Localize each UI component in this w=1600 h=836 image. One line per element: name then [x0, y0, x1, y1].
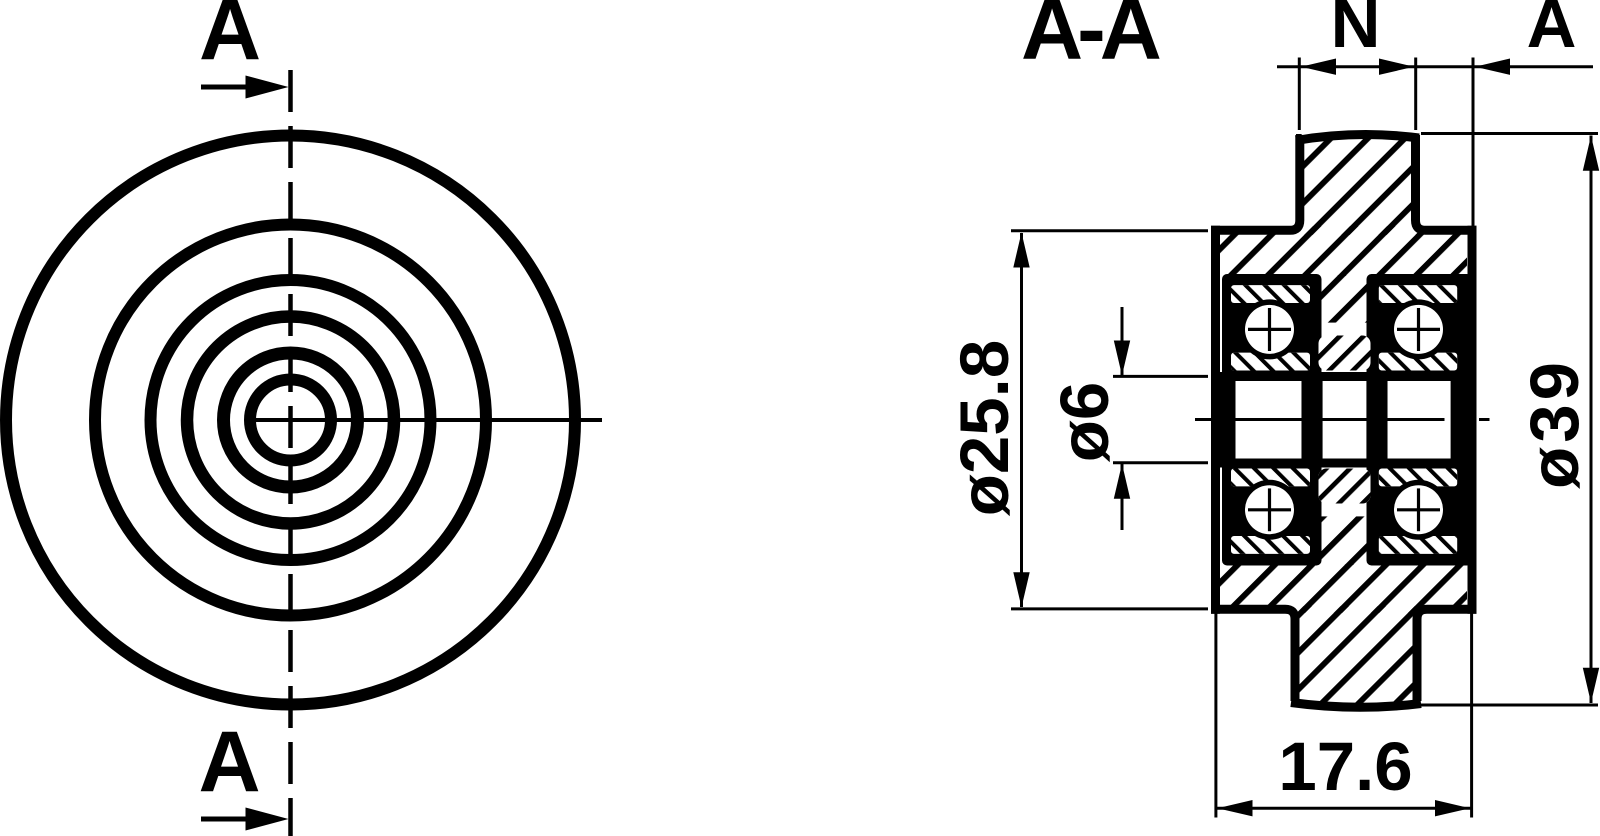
section horizontal centerline — [1195, 418, 1213, 421]
ext line N right — [1414, 58, 1417, 131]
ext line d25.8 top — [1011, 229, 1208, 232]
bore window W2 — [1323, 381, 1367, 459]
arrow d25.8 down — [1013, 572, 1029, 607]
dim line d39 — [1590, 136, 1593, 704]
hub bottom cap — [1291, 703, 1421, 708]
hatched spacer tile (upper) — [1319, 336, 1371, 371]
upper-left bearing block — [1222, 274, 1322, 381]
race hatch bands upper-right bearing — [1379, 285, 1457, 303]
body outline left face — [1211, 226, 1220, 614]
bearing inner race circle — [224, 353, 358, 487]
svg-text:17.6: 17.6 — [1278, 728, 1412, 805]
bore top bar — [1211, 372, 1477, 381]
ext line N left — [1298, 58, 1301, 131]
vertical section centerline (dashed) — [288, 70, 293, 836]
bore bottom bar — [1211, 459, 1477, 468]
horizontal centerline — [250, 418, 602, 422]
upper-right bearing block — [1367, 274, 1473, 381]
arrow d39 down — [1583, 668, 1599, 703]
svg-text:A: A — [199, 0, 261, 78]
bearing shoulder circle — [187, 317, 394, 524]
ext line d6 bottom — [1113, 461, 1208, 464]
arrow d39 up — [1583, 136, 1599, 171]
cutting-plane arrow (bottom) — [201, 817, 252, 822]
body top surface + hub left wall — [1211, 135, 1300, 230]
bore-level bar mid-right — [1366, 372, 1387, 468]
ext line 17.6 right — [1470, 612, 1473, 818]
race hatch bands lower-right bearing — [1379, 469, 1457, 487]
race hatch bands upper-left bearing — [1231, 285, 1310, 303]
arrow N right / A outside-left — [1379, 59, 1414, 75]
wheel outer circle (d39) — [6, 136, 575, 705]
dim line 17.6 — [1217, 807, 1471, 810]
bore-level bar left — [1216, 372, 1236, 468]
svg-text:ø39: ø39 — [1516, 358, 1593, 489]
ball lower-left — [1240, 480, 1300, 540]
ext line d6 top — [1113, 375, 1208, 378]
ext line d25.8 bottom — [1011, 607, 1208, 610]
cutting-plane arrow (top) — [201, 85, 252, 90]
arrow A (points left into body face ext) — [1475, 59, 1510, 75]
arrow d6 down — [1114, 341, 1130, 376]
body bottom surface + hub bottom-left wall — [1211, 609, 1295, 701]
body top surface right + hub right wall — [1416, 135, 1477, 230]
arrow d25.8 up — [1013, 233, 1029, 268]
bore window W1 — [1236, 381, 1302, 459]
hatched hub bottom column — [1292, 606, 1420, 704]
svg-text:N: N — [1331, 0, 1381, 62]
ball lower-right — [1389, 480, 1449, 540]
svg-text:ø6: ø6 — [1046, 382, 1123, 463]
ball upper-left — [1240, 299, 1300, 359]
dim line d25.8 — [1020, 233, 1023, 607]
bore circle (d6) — [250, 380, 331, 461]
ext line d39 bottom — [1421, 704, 1598, 707]
wheel shoulder circle (d25.8) — [95, 225, 486, 616]
arrow d6 up — [1114, 464, 1130, 499]
hatched spacer tile (lower) — [1319, 469, 1371, 504]
body bottom surface right + hub bottom-right wall — [1417, 609, 1477, 701]
hatched hub top column — [1296, 134, 1420, 235]
arrow 17.6 left — [1218, 800, 1253, 816]
svg-text:ø25.8: ø25.8 — [946, 340, 1023, 516]
ball upper-right — [1389, 299, 1449, 359]
hatched hub waist (lower) — [1315, 516, 1372, 565]
ext line 17.6 left — [1214, 612, 1217, 818]
hatched wheel-body bottom band — [1220, 564, 1467, 613]
hatched wheel-body top band — [1220, 226, 1467, 276]
svg-text:A: A — [1527, 0, 1577, 62]
top dimension line N/A — [1277, 65, 1593, 68]
bearing outer race circle — [151, 280, 431, 560]
svg-text:A-A: A-A — [1021, 0, 1160, 78]
lower-left bearing block — [1222, 459, 1322, 566]
bore window W3 — [1388, 381, 1451, 459]
race hatch bands lower-left bearing — [1231, 469, 1310, 487]
hub top cap — [1296, 135, 1419, 141]
ext line A — [1472, 58, 1475, 229]
lower-right bearing block — [1367, 459, 1473, 566]
bore-level bar mid-left — [1301, 372, 1322, 468]
ext line d39 top — [1421, 132, 1598, 135]
arrow 17.6 right — [1435, 800, 1470, 816]
dim line d6 lower leg — [1121, 464, 1124, 530]
body outline right face — [1468, 226, 1477, 614]
arrow N left — [1301, 59, 1336, 75]
dim line d6 upper leg — [1121, 307, 1124, 375]
hatched hub waist (upper) — [1315, 275, 1372, 323]
bore-level bar right — [1451, 372, 1477, 468]
svg-text:A: A — [198, 714, 260, 810]
